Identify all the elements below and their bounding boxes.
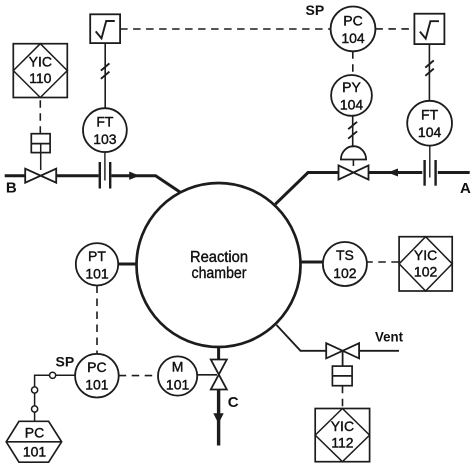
svg-text:110: 110 bbox=[29, 70, 52, 86]
svg-text:FT: FT bbox=[96, 114, 114, 130]
svg-text:TS: TS bbox=[336, 247, 354, 263]
svg-text:PC: PC bbox=[25, 424, 44, 440]
svg-text:YIC: YIC bbox=[29, 54, 52, 70]
svg-text:SP: SP bbox=[306, 2, 325, 18]
svg-text:104: 104 bbox=[341, 30, 365, 46]
svg-text:M: M bbox=[172, 358, 184, 374]
svg-text:B: B bbox=[6, 179, 17, 196]
svg-text:Reaction: Reaction bbox=[190, 249, 248, 266]
svg-text:101: 101 bbox=[85, 377, 109, 393]
svg-text:PC: PC bbox=[87, 359, 106, 375]
svg-text:101: 101 bbox=[85, 265, 109, 281]
svg-text:101: 101 bbox=[23, 444, 47, 460]
svg-text:C: C bbox=[228, 394, 239, 411]
svg-text:YIC: YIC bbox=[331, 418, 354, 434]
svg-text:PY: PY bbox=[342, 79, 361, 95]
svg-text:chamber: chamber bbox=[192, 265, 248, 282]
svg-text:A: A bbox=[460, 180, 471, 197]
svg-text:104: 104 bbox=[340, 96, 364, 112]
svg-text:SP: SP bbox=[56, 353, 75, 369]
svg-text:102: 102 bbox=[333, 265, 357, 281]
svg-text:YIC: YIC bbox=[414, 247, 437, 263]
svg-text:112: 112 bbox=[331, 435, 354, 451]
svg-text:PC: PC bbox=[343, 12, 362, 28]
svg-text:101: 101 bbox=[166, 377, 190, 393]
svg-text:102: 102 bbox=[414, 263, 438, 279]
svg-text:PT: PT bbox=[88, 248, 106, 264]
svg-text:104: 104 bbox=[418, 124, 442, 140]
svg-text:103: 103 bbox=[93, 131, 117, 147]
svg-text:FT: FT bbox=[421, 107, 439, 123]
svg-text:Vent: Vent bbox=[375, 328, 403, 344]
